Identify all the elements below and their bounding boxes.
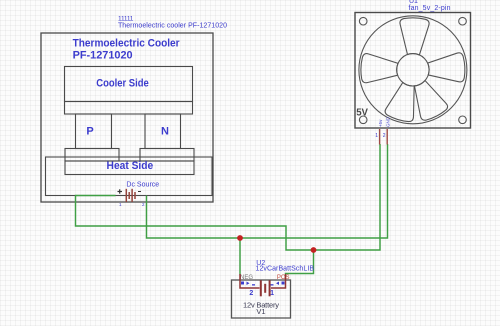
battery pin 2 decoration [241,282,255,286]
fan blade 1 [399,17,429,55]
plus sign [118,189,123,193]
svg-text:NEG: NEG [240,275,253,281]
fan blade 4 [384,80,423,124]
svg-text:2: 2 [383,133,386,139]
base assembly box [46,157,213,196]
svg-text:1: 1 [119,202,122,207]
svg-text:V1: V1 [256,307,265,316]
svg-text:fan_5v_2-pin: fan_5v_2-pin [409,5,451,12]
fan hub [397,54,429,86]
fan mounting hole top-right [459,17,467,25]
wire branch to battery NEG [239,238,241,275]
fan mounting hole bottom-right [459,116,467,124]
svg-text:P: P [86,125,93,137]
cooler side box [65,67,193,102]
svg-text:PF-1271020: PF-1271020 [73,50,133,62]
N foot block [140,149,194,162]
P pillar [76,114,112,149]
svg-text:GND: GND [386,116,391,127]
junction dot at battery POS branch [311,247,317,253]
fan mounting hole bottom-left [359,116,367,124]
svg-text:Cooler Side: Cooler Side [96,77,149,89]
svg-text:2: 2 [249,290,253,297]
battery NEG pin lead [240,274,260,288]
wire + net : dc source to fan pin1 [76,144,381,250]
Dc Source battery symbol [126,189,135,202]
svg-text:N: N [161,125,169,137]
battery POS pin lead [271,274,286,288]
battery pin 1 decoration [271,282,285,286]
battery cell bars [261,280,270,296]
svg-text:POS: POS [277,275,290,281]
fan blade 5 [360,53,398,83]
fan blade 3 [407,77,450,123]
svg-text:Dc Source: Dc Source [126,181,159,188]
junction dot at battery NEG branch [237,235,243,241]
fan rotor circle [359,16,467,124]
svg-text:2: 2 [142,202,145,207]
fan frame [355,13,471,129]
svg-text:1: 1 [270,290,274,297]
fan mounting hole top-left [359,17,367,25]
wire - net : dc source to fan pin2 [147,144,388,238]
svg-text:Thermoelectric cooler PF-12710: Thermoelectric cooler PF-1271020 [118,22,227,29]
battery box [232,280,291,318]
heat side box [65,161,194,175]
wire branch to battery POS [286,250,314,275]
svg-text:Heat Side: Heat Side [107,160,154,172]
fan pin 1 stub [379,129,381,145]
fan pin 2 stub [386,129,388,145]
svg-text:1: 1 [375,133,378,139]
N pillar [145,114,181,149]
TEC outer box [41,33,213,202]
cold plate strip [65,102,193,115]
svg-text:+5v: +5v [378,119,383,127]
svg-text:Thermoelectric Cooler: Thermoelectric Cooler [73,37,181,49]
P foot block [65,149,119,162]
fan blade 2 [427,53,465,84]
svg-text:5V: 5V [356,106,368,118]
svg-text:12vCarBattSchLIB: 12vCarBattSchLIB [256,265,315,272]
minus sign [138,191,141,193]
